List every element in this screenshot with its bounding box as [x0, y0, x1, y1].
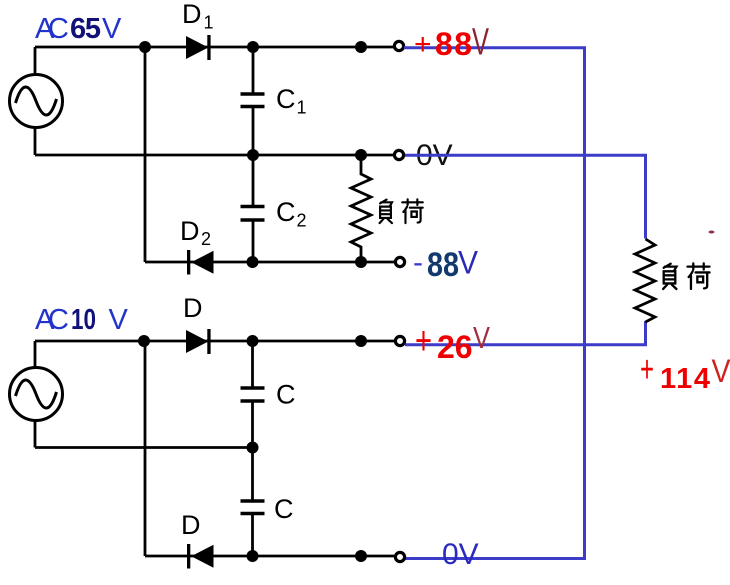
- blue wire right load bottom to +26V: [405, 321, 646, 345]
- junction top rail / C1 upper: [247, 41, 259, 53]
- terminal +88V: [394, 41, 403, 50]
- diode D2: [187, 250, 214, 275]
- svg-text:V: V: [102, 13, 122, 45]
- junction mid rail / C-C lower-circuit: [247, 442, 259, 454]
- svg-text:C: C: [276, 197, 296, 227]
- junction top rail / output column upper: [355, 41, 367, 53]
- svg-text:65: 65: [70, 13, 101, 45]
- wire capacitor column lower: [251, 341, 254, 556]
- terminal -88V: [395, 257, 404, 266]
- junction top rail / hot column lower: [138, 335, 150, 347]
- svg-text:V: V: [472, 22, 489, 64]
- wire mid rail lower circuit: [35, 446, 253, 449]
- wire mid rail upper circuit: [35, 154, 394, 157]
- terminal 0V lower: [395, 552, 404, 561]
- junction bottom rail / output lower: [355, 550, 367, 562]
- wire vertical hot column lower: [144, 341, 147, 556]
- junction bottom rail / load upper: [355, 256, 367, 268]
- svg-text:C: C: [276, 84, 296, 114]
- wire bottom stub V2: [34, 420, 37, 448]
- svg-text:+: +: [415, 319, 432, 363]
- AC source V1: [10, 75, 63, 128]
- wire top stub V2: [34, 341, 37, 368]
- svg-text:C: C: [276, 380, 296, 410]
- resistor load right (zigzag): [635, 239, 655, 322]
- wire top rail upper circuit: [35, 46, 394, 49]
- junction bottom rail / C lower lower-circuit: [247, 550, 259, 562]
- svg-text:0V: 0V: [442, 538, 479, 571]
- capacitor C lower (lower circuit): [241, 501, 265, 514]
- svg-text:88: 88: [435, 26, 472, 62]
- label fuka (load) right: [663, 264, 676, 289]
- svg-text:88: 88: [427, 246, 459, 284]
- AC source V2: [10, 368, 63, 421]
- svg-text:D: D: [180, 216, 200, 246]
- capacitor C2: [241, 207, 265, 221]
- wire bottom rail lower circuit: [145, 555, 395, 558]
- svg-text:AC: AC: [35, 13, 69, 45]
- capacitor C1: [241, 94, 265, 107]
- wire vertical hot column upper: [144, 47, 147, 262]
- resistor load upper (zigzag): [351, 155, 371, 262]
- wire top stub V1: [34, 47, 37, 75]
- svg-text:D: D: [183, 293, 203, 323]
- svg-text:114: 114: [660, 363, 710, 395]
- blue wire +88V to right vertical and down to lower 0V: [404, 48, 585, 559]
- svg-text:V: V: [458, 245, 479, 281]
- svg-text:C: C: [274, 494, 294, 524]
- diode D1: [186, 35, 211, 60]
- svg-text:2: 2: [297, 211, 307, 231]
- svg-text:1: 1: [297, 98, 307, 118]
- blue wire 0V to right load top: [405, 155, 646, 238]
- svg-text:V: V: [712, 353, 730, 389]
- svg-text:AC: AC: [35, 304, 69, 336]
- terminal 0V upper: [394, 150, 403, 159]
- junction top rail / hot column upper: [139, 41, 151, 53]
- wire bottom stub V1: [34, 127, 37, 155]
- svg-text:D: D: [181, 510, 201, 540]
- svg-text:+: +: [414, 28, 432, 61]
- junction mid rail / load upper: [355, 149, 367, 161]
- svg-text:V: V: [473, 320, 490, 355]
- red mark artifact: [709, 231, 715, 234]
- wire bottom rail upper circuit: [145, 261, 395, 264]
- svg-text:-: -: [413, 246, 423, 279]
- junction bottom rail / C2 upper: [247, 256, 259, 268]
- label fuka (load) upper: [380, 200, 392, 223]
- junction top rail / C upper lower-circuit: [247, 335, 259, 347]
- junction top rail / output column lower: [355, 335, 367, 347]
- svg-text:+: +: [640, 349, 654, 391]
- diode D lower (lower circuit): [187, 544, 214, 569]
- svg-text:26: 26: [437, 329, 473, 365]
- svg-text:10: 10: [71, 304, 96, 336]
- wire top rail lower circuit: [35, 340, 394, 343]
- svg-text:1: 1: [204, 13, 214, 33]
- wire capacitor column upper: [252, 47, 255, 262]
- terminal +26V: [395, 336, 404, 345]
- svg-text:V: V: [109, 304, 129, 336]
- junction mid rail / C1-C2 upper: [247, 149, 259, 161]
- diode D upper (lower circuit): [186, 329, 211, 354]
- capacitor C upper (lower circuit): [241, 388, 265, 401]
- svg-text:D: D: [182, 0, 202, 29]
- svg-text:2: 2: [201, 229, 211, 249]
